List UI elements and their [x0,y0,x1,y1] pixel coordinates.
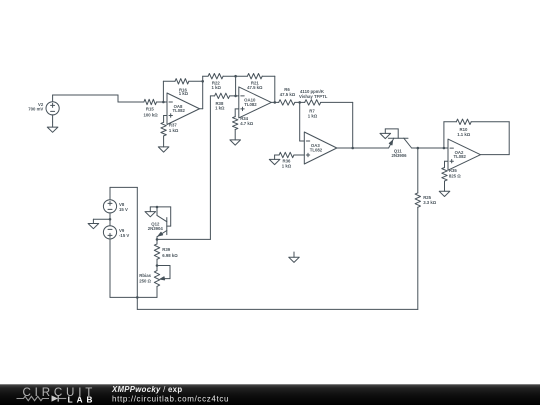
resistor R25 [415,193,437,207]
resistor R10 [456,119,509,137]
svg-text:1 kΩ: 1 kΩ [282,164,292,169]
wire node down to R25 [417,148,419,193]
resistor R15 [143,99,163,117]
svg-text:R35: R35 [449,168,457,173]
CircuitLab logo [17,386,97,405]
wire R6 node down to OA3 - input [300,102,305,141]
ground at Q11 base [380,129,391,139]
svg-text:2N3906: 2N3906 [391,153,407,158]
svg-text:825 Ω: 825 Ω [449,174,461,179]
svg-text:-15 V: -15 V [119,233,129,238]
svg-text:TL082: TL082 [172,108,185,113]
wire V2 to R15 [53,95,144,102]
wire R7 to OA3 output [352,102,354,148]
transistor Q12 [148,207,171,240]
transistor Q11 [385,129,411,158]
svg-text:R37: R37 [169,122,177,127]
svg-text:6.98 kΩ: 6.98 kΩ [162,253,178,258]
svg-text:250 Ω: 250 Ω [139,278,151,283]
voltage source V2 [28,95,59,122]
footer bar [0,384,540,405]
resistor R38 [215,93,236,110]
wire OA8 + input to R37 [164,116,167,123]
resistor R35 [442,168,461,182]
svg-text:R39: R39 [162,247,170,252]
svg-text:1 kΩ: 1 kΩ [215,105,225,110]
node R16 output junction [201,80,204,83]
svg-text:1 kΩ: 1 kΩ [169,128,179,133]
resistor R21 [236,74,275,91]
node stage1 inverting input [162,101,167,104]
svg-text:Rbias: Rbias [139,273,151,278]
wire R25 to bottom rail [137,207,418,309]
svg-text:4.7 kΩ: 4.7 kΩ [240,121,254,126]
ground below R37 [158,136,169,152]
potentiometer Rbias [139,266,170,298]
wire from Q12 emitter to R38 [210,95,214,97]
ground at supply midpoint [88,219,99,228]
op-amp OA8 [167,93,200,125]
wire R21 to OA10 output [274,76,276,102]
svg-text:3.3 kΩ: 3.3 kΩ [423,200,437,205]
resistor R39 [154,239,178,265]
node Q12 emitter [156,238,159,241]
node rail/bottom [136,296,139,299]
wire Q11 collector to node [412,147,418,149]
svg-text:TL082: TL082 [244,102,257,107]
svg-text:1 kΩ: 1 kΩ [308,114,318,119]
resistor R37 [161,122,179,136]
ground left of R36 [269,155,280,165]
resistor R34 [233,116,254,130]
wire OA8 output up [200,76,209,109]
voltage source V8 [103,187,128,219]
svg-text:R15: R15 [146,106,154,111]
resistor R7 [299,89,353,119]
node OA2 inverting input [443,147,448,150]
node Q12 collector [156,206,159,209]
svg-text:47.5 kΩ: 47.5 kΩ [247,85,263,90]
op-amp OA2 [448,139,481,170]
svg-text:TL082: TL082 [310,147,323,152]
floating ground [289,252,300,262]
svg-text:47.5 kΩ: 47.5 kΩ [280,92,296,97]
footer text [111,385,229,404]
node OA3 output junction [337,147,389,150]
svg-text:700 mV: 700 mV [28,107,43,112]
wire Q12 emitter to R38 column [157,96,210,240]
wire V9 bottom [110,296,157,298]
wire OA2 + input to R35 [445,161,449,167]
op-amp OA3 [304,132,337,164]
wire OA10 + input to R34 [235,109,239,117]
svg-text:TL082: TL082 [453,154,466,159]
svg-text:XMPPwocky / exp: XMPPwocky / exp [111,385,182,394]
ground below V2 [47,122,58,132]
node R6/R7 junction [298,101,301,104]
svg-text:LAB: LAB [68,395,97,404]
svg-text:15 V: 15 V [119,207,128,212]
svg-text:1 kΩ: 1 kΩ [179,91,189,96]
wire R10 feedback left leg [444,122,456,148]
node Q11/R25 [417,147,444,150]
voltage source V9 [103,219,129,297]
wire V8 to rail [110,186,137,188]
op-amp OA10 [239,87,271,118]
resistor R36 [279,152,304,168]
node Rbias top [156,264,159,267]
wire feedback tap up [163,81,175,102]
svg-text:http://circuitlab.com/ccz4tcu: http://circuitlab.com/ccz4tcu [112,394,229,403]
svg-text:1 kΩ: 1 kΩ [211,85,221,90]
resistor R22 [208,74,236,91]
svg-text:100 kΩ: 100 kΩ [143,113,158,118]
node OA10 output junction [271,101,278,104]
svg-text:1.1 kΩ: 1.1 kΩ [457,132,471,137]
node between V8 and V9 [93,218,111,221]
node R22/R21 junction [234,75,237,96]
rail wire down [136,187,138,309]
resistor R16 [175,79,203,97]
ground at Q12 [145,207,156,217]
ground below R35 [439,181,450,196]
resistor R6 [279,87,300,105]
node OA10 inverting input [234,95,239,98]
svg-text:2N3904: 2N3904 [148,226,164,231]
ground below R34 [230,130,241,146]
svg-text:Vishay TFPTL: Vishay TFPTL [299,94,328,99]
wire R10 to OA2 output [481,122,510,155]
